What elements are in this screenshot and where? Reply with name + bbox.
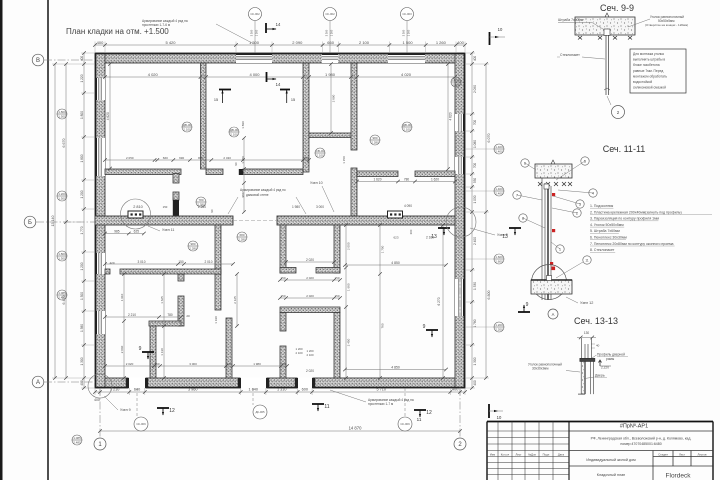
- svg-text:4 020: 4 020: [401, 72, 412, 77]
- wall H4: [149, 321, 181, 326]
- sill block: [531, 280, 572, 294]
- svg-text:2.100: 2.100: [452, 83, 460, 87]
- svg-text:6 270: 6 270: [437, 297, 441, 305]
- svg-text:Дверь: Дверь: [595, 374, 605, 378]
- svg-text:1 300: 1 300: [473, 357, 477, 365]
- svg-text:СВ-00: СВ-00: [316, 149, 325, 153]
- svg-text:400: 400: [94, 398, 100, 402]
- svg-text:выполнить штрабы в: выполнить штрабы в: [633, 58, 665, 62]
- svg-text:1 300: 1 300: [80, 357, 84, 365]
- svg-text:Узел 8: Узел 8: [497, 233, 508, 237]
- svg-text:14: 14: [276, 22, 281, 27]
- door bottom D1: [129, 377, 146, 388]
- circle A: [548, 309, 558, 319]
- inner top dim row: [105, 76, 455, 78]
- section 11-11 frame column: [541, 178, 543, 300]
- svg-text:Узел 9: Узел 9: [120, 408, 131, 412]
- title block right part: [569, 430, 713, 432]
- svg-text:4 850: 4 850: [391, 365, 400, 369]
- window right W8: [455, 114, 465, 131]
- svg-text:400: 400: [473, 380, 477, 386]
- wall V4 lower: [226, 318, 232, 378]
- svg-text:2. Пластина крепежная 200х40мм: 2. Пластина крепежная 200х40мм(загнуть п…: [590, 210, 682, 214]
- svg-text:равные 7мм. Перед: равные 7мм. Перед: [633, 69, 663, 73]
- wall V1b upper: [173, 174, 179, 184]
- grid 2 dash through plan: [459, 225, 461, 388]
- svg-text:5 420: 5 420: [165, 40, 176, 45]
- section 13-13 upper frame lines: [581, 338, 583, 359]
- svg-text:2 090: 2 090: [292, 40, 303, 45]
- svg-text:1 260: 1 260: [436, 40, 447, 45]
- svg-text:1 620: 1 620: [431, 177, 439, 181]
- jamb H1 black: [239, 169, 243, 175]
- svg-text:4. Уголок 50х50х5мм: 4. Уголок 50х50х5мм: [590, 223, 624, 227]
- wall H1c: [243, 169, 303, 175]
- section 9-9 break mark: [605, 13, 609, 17]
- callout D: [583, 256, 591, 264]
- svg-text:силиконовой смазкой: силиконовой смазкой: [633, 86, 666, 90]
- svg-text:2 010: 2 010: [205, 260, 213, 264]
- frame line: [47, 0, 49, 480]
- flag 9 left: [142, 351, 154, 353]
- svg-text:2 810: 2 810: [133, 205, 143, 209]
- svg-text:6 800: 6 800: [487, 291, 491, 300]
- svg-text:Сеч. 9-9: Сеч. 9-9: [600, 3, 634, 13]
- svg-text:дымовой стене: дымовой стене: [246, 193, 269, 197]
- svg-text:№Док: №Док: [528, 452, 536, 456]
- svg-text:Изм: Изм: [490, 452, 495, 456]
- svg-text:680: 680: [239, 233, 244, 237]
- red fasteners: [552, 193, 555, 196]
- interior dim chains: [109, 64, 111, 169]
- svg-text:Flordeck: Flordeck: [666, 473, 692, 480]
- inner dims corridor: [105, 233, 144, 235]
- svg-text:780: 780: [404, 177, 410, 181]
- vent block 1 circle: [121, 199, 151, 229]
- svg-text:400: 400: [80, 56, 84, 62]
- svg-text:2.485: 2.485: [58, 296, 66, 300]
- svg-text:1 220: 1 220: [80, 74, 84, 82]
- svg-text:ДВ-00: ДВ-00: [403, 123, 412, 127]
- window right W10: [455, 279, 465, 316]
- svg-text:10: 10: [498, 27, 503, 32]
- svg-text:2.280: 2.280: [238, 238, 246, 242]
- exterior wall bottom: [95, 378, 465, 388]
- svg-text:водостойкой: водостойкой: [633, 80, 652, 84]
- inner dims right rooms: [345, 264, 446, 266]
- svg-text:40: 40: [596, 344, 600, 348]
- title block left grid: [497, 422, 499, 481]
- svg-text:2 020: 2 020: [126, 362, 134, 366]
- svg-text:1 700: 1 700: [380, 245, 384, 253]
- flag 13 a: [438, 227, 450, 229]
- left outer dim col 3: [54, 64, 56, 378]
- svg-text:2.280: 2.280: [189, 247, 197, 251]
- svg-text:простенках 1-7-6 м: простенках 1-7-6 м: [142, 23, 170, 27]
- svg-text:1 190: 1 190: [214, 316, 218, 324]
- flag 11 bottom-mid: [312, 403, 324, 405]
- corridor wall left: [95, 216, 233, 225]
- central room 1 bottom a: [280, 268, 296, 274]
- svg-text:700: 700: [473, 120, 477, 126]
- wall H3: [120, 269, 221, 274]
- uzel 8 circle: [446, 207, 476, 237]
- svg-text:Стеклопакет: Стеклопакет: [560, 53, 580, 57]
- svg-text:2 125: 2 125: [233, 296, 237, 304]
- svg-text:3 000: 3 000: [316, 205, 324, 209]
- flag 15 b: [280, 89, 290, 91]
- grid circle 1: [94, 438, 106, 450]
- svg-text:7. Пеноплекс 20х80мм по контур: 7. Пеноплекс 20х80мм по контуру оконного…: [590, 242, 674, 246]
- wall H3 stub: [105, 269, 110, 274]
- svg-text:985: 985: [114, 229, 120, 233]
- svg-text:1.800: 1.800: [58, 252, 66, 256]
- svg-text:150: 150: [163, 205, 168, 209]
- svg-text:4 000: 4 000: [249, 72, 260, 77]
- wall H1a: [105, 169, 181, 175]
- svg-text:1 620: 1 620: [374, 177, 382, 181]
- svg-text:150: 150: [334, 276, 339, 280]
- svg-text:1 500: 1 500: [255, 29, 259, 36]
- svg-text:880: 880: [198, 156, 203, 160]
- svg-text:Лист: Лист: [515, 452, 522, 456]
- svg-text:А: А: [36, 380, 40, 386]
- svg-text:СК-009: СК-009: [400, 422, 410, 426]
- svg-text:1.500: 1.500: [58, 197, 66, 201]
- svg-text:9: 9: [526, 302, 529, 308]
- svg-text:13 140: 13 140: [51, 216, 55, 227]
- left outer dim col 2: [65, 64, 67, 378]
- svg-text:2 020: 2 020: [306, 258, 314, 262]
- wall V3b upper: [178, 274, 184, 281]
- svg-text:150: 150: [280, 276, 285, 280]
- svg-text:1.085: 1.085: [58, 291, 66, 295]
- svg-text:5. Штраба 7х60мм: 5. Штраба 7х60мм: [590, 229, 620, 233]
- wall V1: [201, 63, 207, 169]
- window top W2: [322, 53, 338, 63]
- wall H right b: [415, 171, 455, 177]
- svg-text:СК-002: СК-002: [325, 12, 335, 16]
- svg-text:1 980: 1 980: [292, 205, 300, 209]
- central room 2 left b: [280, 346, 286, 378]
- grid circle 2: [454, 438, 466, 450]
- flag 10 top right: [489, 32, 491, 45]
- svg-text:2 100: 2 100: [307, 353, 314, 357]
- svg-text:400: 400: [457, 40, 464, 45]
- svg-text:15: 15: [214, 98, 218, 102]
- flag 9 right: [426, 329, 438, 331]
- svg-text:11: 11: [585, 259, 589, 263]
- svg-text:12: 12: [169, 408, 175, 414]
- flag 13 b: [509, 227, 521, 229]
- svg-text:1.500: 1.500: [58, 115, 66, 119]
- svg-text:150: 150: [334, 294, 339, 298]
- inner dims upper rooms: [105, 159, 309, 161]
- svg-text:Кладочный план: Кладочный план: [597, 473, 625, 477]
- svg-text:6 070: 6 070: [487, 134, 491, 143]
- svg-text:2 100: 2 100: [359, 40, 370, 45]
- svg-text:3 300: 3 300: [325, 29, 329, 36]
- svg-text:30х30х3мм: 30х30х3мм: [532, 367, 548, 371]
- wall H1b: [206, 169, 223, 175]
- svg-text:2 430: 2 430: [223, 156, 231, 160]
- svg-text:(Отверстие на концах - 120мм): (Отверстие на концах - 120мм): [645, 23, 688, 27]
- grid line 2: [459, 388, 461, 437]
- svg-text:1 040: 1 040: [249, 388, 259, 392]
- window left W5: [95, 138, 105, 176]
- svg-text:780: 780: [380, 323, 384, 328]
- svg-text:Подп: Подп: [543, 452, 550, 456]
- svg-text:Армирование каждый 4 ряд по: Армирование каждый 4 ряд по: [240, 188, 286, 192]
- svg-text:Сеч. 13-13: Сеч. 13-13: [574, 316, 618, 326]
- flag 15 a: [219, 89, 231, 91]
- svg-text:2.100: 2.100: [230, 133, 238, 137]
- svg-text:1 625: 1 625: [160, 296, 164, 304]
- callout top 3: [401, 8, 414, 21]
- wall V4 upper: [215, 225, 221, 310]
- svg-text:1 890: 1 890: [241, 121, 245, 129]
- exterior outer face outline: [96, 54, 465, 388]
- split circles lower: [196, 197, 206, 207]
- mark 10 near title block: [488, 404, 490, 418]
- svg-text:980: 980: [372, 136, 377, 140]
- svg-text:780: 780: [167, 313, 173, 317]
- svg-text:2.100: 2.100: [403, 128, 411, 132]
- svg-text:1 080: 1 080: [473, 140, 477, 148]
- svg-text:1 980: 1 980: [253, 362, 261, 366]
- svg-text:РФ, Ленинградская обл., Всевол: РФ, Ленинградская обл., Всеволожский р-н…: [591, 437, 692, 441]
- note box 9-9: [630, 49, 686, 93]
- door bottom D3: [298, 377, 313, 388]
- svg-text:150: 150: [303, 156, 308, 160]
- wall V3 upper: [351, 63, 357, 150]
- svg-text:150: 150: [154, 362, 159, 366]
- svg-text:1 980: 1 980: [325, 72, 336, 77]
- callout bottom 1: [134, 417, 148, 431]
- svg-text:700: 700: [473, 163, 477, 169]
- corridor opening dashline: [233, 220, 277, 222]
- svg-text:2.400: 2.400: [495, 150, 503, 154]
- central room 2 left a: [280, 313, 286, 332]
- svg-text:Узел 12: Узел 12: [580, 301, 593, 305]
- svg-text:СВ-00: СВ-00: [452, 78, 461, 82]
- svg-text:1 130: 1 130: [160, 348, 164, 356]
- svg-text:90: 90: [234, 162, 238, 166]
- svg-text:монтажом обработать: монтажом обработать: [633, 74, 667, 78]
- svg-text:1 500: 1 500: [403, 40, 414, 45]
- central room 1 bottom b: [316, 268, 340, 274]
- wall V2: [303, 63, 309, 172]
- svg-text:4 620: 4 620: [106, 112, 110, 120]
- svg-text:3. Пароизоляция по контуру про: 3. Пароизоляция по контуру профиля 1мм: [590, 217, 660, 221]
- svg-text:1 330: 1 330: [473, 282, 477, 290]
- svg-text:2.400: 2.400: [495, 192, 503, 196]
- jamb V1b black: [173, 200, 179, 216]
- svg-text:1. Подоконник: 1. Подоконник: [590, 204, 614, 208]
- svg-text:660: 660: [163, 156, 168, 160]
- window top W1: [236, 53, 272, 63]
- svg-text:2.100: 2.100: [183, 128, 191, 132]
- top outer dimension row: [95, 44, 465, 46]
- svg-text:530: 530: [473, 178, 477, 184]
- svg-text:14 870: 14 870: [349, 426, 362, 431]
- wall H1d: [309, 133, 351, 138]
- callout bottom 3: [398, 417, 412, 431]
- svg-text:625: 625: [134, 229, 140, 233]
- svg-text:СК-002: СК-002: [250, 12, 260, 16]
- wall V3 lower: [351, 168, 357, 216]
- bottom overall dim: [100, 430, 460, 432]
- svg-text:300: 300: [409, 229, 413, 234]
- grid circle А: [32, 376, 44, 388]
- svg-text:8. Стеклопакет: 8. Стеклопакет: [590, 248, 615, 252]
- svg-text:2.280: 2.280: [371, 141, 379, 145]
- flag 9 outer right: [518, 311, 530, 313]
- split circles right col: [494, 144, 504, 154]
- svg-text:14: 14: [276, 82, 281, 87]
- svg-text:13: 13: [431, 234, 437, 240]
- svg-text:1 030: 1 030: [473, 195, 477, 203]
- central room 2 top: [280, 307, 340, 313]
- svg-text:2 090: 2 090: [473, 85, 477, 93]
- window right W9: [455, 157, 465, 174]
- section 11-11 block: [535, 164, 572, 178]
- section 13-13 door leaf: [581, 362, 584, 395]
- title block outer: [486, 422, 488, 481]
- svg-text:9: 9: [139, 346, 142, 352]
- svg-text:150: 150: [280, 294, 285, 298]
- svg-text:90: 90: [210, 209, 214, 213]
- callout top 1: [249, 8, 262, 21]
- svg-text:5 710: 5 710: [376, 388, 386, 392]
- svg-text:623: 623: [393, 236, 398, 240]
- callout bottom 2: [253, 405, 267, 419]
- section 9-9 bottom callout: [612, 106, 625, 119]
- jamb V3 black: [352, 202, 357, 216]
- svg-text:Сеч. 11-11: Сеч. 11-11: [603, 144, 646, 154]
- svg-text:150: 150: [227, 362, 232, 366]
- svg-text:А: А: [552, 312, 555, 317]
- svg-text:Индивидуальный жилой дом: Индивидуальный жилой дом: [586, 458, 636, 462]
- svg-text:1.400: 1.400: [495, 145, 503, 149]
- vent block 1: [128, 211, 143, 218]
- svg-text:Узел 10: Узел 10: [310, 181, 323, 185]
- svg-text:2 020: 2 020: [306, 294, 314, 298]
- svg-text:20: 20: [186, 314, 190, 318]
- split circles inside plan: [182, 122, 192, 132]
- svg-text:2.280: 2.280: [197, 203, 205, 207]
- svg-text:Для монтажа уголка: Для монтажа уголка: [633, 52, 664, 56]
- svg-text:СК-003: СК-003: [402, 12, 412, 16]
- svg-text:2 000: 2 000: [346, 242, 350, 250]
- svg-text:Кол.уч: Кол.уч: [501, 452, 510, 456]
- grid circle Б: [24, 216, 36, 228]
- section 9-9 corner ticks: [578, 36, 582, 40]
- svg-text:6 670: 6 670: [62, 139, 66, 148]
- svg-text:ДВ-00: ДВ-00: [230, 128, 239, 132]
- svg-text:3 300: 3 300: [402, 29, 406, 36]
- svg-text:11: 11: [417, 417, 422, 422]
- grid line Б: [36, 221, 95, 223]
- svg-text:10: 10: [497, 415, 502, 420]
- svg-text:9: 9: [423, 324, 426, 330]
- svg-text:номер:47070485001:6480: номер:47070485001:6480: [620, 442, 661, 446]
- svg-text:3 000: 3 000: [189, 362, 197, 366]
- flag 14 top: [265, 23, 267, 33]
- right outer dim col 2: [485, 64, 487, 378]
- svg-text:2 020: 2 020: [306, 369, 314, 373]
- window top W3: [388, 53, 425, 63]
- svg-text:980: 980: [241, 192, 245, 197]
- svg-text:1 680: 1 680: [346, 283, 350, 291]
- svg-text:600: 600: [302, 388, 308, 392]
- split circles left col: [57, 109, 67, 119]
- svg-text:рамы: рамы: [606, 357, 615, 361]
- svg-text:3 960: 3 960: [188, 388, 198, 392]
- svg-text:980: 980: [190, 242, 195, 246]
- svg-text:В: В: [36, 58, 40, 64]
- svg-text:400: 400: [80, 380, 84, 386]
- right outer dim col 1: [471, 53, 473, 388]
- svg-text:6. Пеноплекс 30х30мм: 6. Пеноплекс 30х30мм: [590, 236, 627, 240]
- svg-text:Узел 11: Узел 11: [162, 228, 174, 232]
- svg-text:1 910: 1 910: [120, 293, 124, 301]
- svg-text:1 380: 1 380: [80, 324, 84, 332]
- svg-text:11: 11: [324, 404, 329, 410]
- flag 12 bottom-right: [414, 409, 426, 411]
- svg-text:660: 660: [327, 40, 334, 45]
- svg-text:4 850: 4 850: [391, 261, 400, 265]
- svg-text:1.500: 1.500: [58, 257, 66, 261]
- section 13-13 frame header: [580, 358, 595, 361]
- grid line 1: [99, 388, 101, 437]
- grid line А: [44, 381, 95, 383]
- svg-text:1 780: 1 780: [473, 319, 477, 327]
- svg-text:1 800: 1 800: [80, 111, 84, 119]
- svg-text:Штраба 7х60мм: Штраба 7х60мм: [558, 18, 584, 22]
- svg-text:блоке газобетона: блоке газобетона: [633, 63, 660, 67]
- svg-text:1 800: 1 800: [80, 154, 84, 162]
- svg-text:15: 15: [291, 98, 295, 102]
- svg-text:Лист: Лист: [679, 452, 686, 456]
- window left W6: [95, 253, 105, 274]
- svg-text:Стадия: Стадия: [658, 452, 668, 456]
- svg-text:Листов: Листов: [697, 452, 707, 456]
- svg-text:1.200: 1.200: [58, 192, 66, 196]
- svg-text:#ПрNº-АР1: #ПрNº-АР1: [620, 423, 648, 430]
- svg-text:2 400: 2 400: [473, 237, 477, 245]
- svg-text:1.800: 1.800: [58, 110, 66, 114]
- svg-text:400: 400: [452, 388, 458, 392]
- central room 2 right: [334, 313, 340, 379]
- svg-text:1 150: 1 150: [342, 156, 346, 164]
- svg-text:1 380: 1 380: [241, 156, 245, 164]
- svg-text:1 500: 1 500: [407, 29, 411, 36]
- uzel 9 circle bulge: [88, 374, 112, 398]
- left outer dim col 1: [83, 53, 85, 388]
- section 9-9 glass line: [605, 35, 607, 95]
- svg-text:2 050: 2 050: [126, 156, 134, 160]
- svg-text:3 300: 3 300: [250, 29, 254, 36]
- bottom dim row 1: [95, 391, 465, 393]
- svg-text:690: 690: [179, 156, 184, 160]
- svg-text:1 770: 1 770: [80, 226, 84, 234]
- svg-text:СК-009: СК-009: [136, 422, 146, 426]
- wall V1b lower: [173, 192, 179, 200]
- wall V5: [150, 326, 156, 378]
- svg-text:2.100: 2.100: [316, 154, 324, 158]
- svg-text:130: 130: [584, 331, 590, 335]
